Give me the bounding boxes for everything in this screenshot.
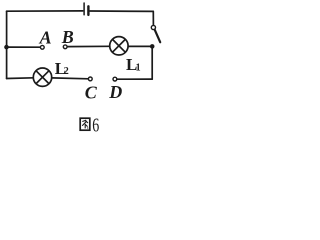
terminal C circle [88,77,92,81]
svg-text:C: C [85,82,98,102]
lamp L2 cross [36,71,49,84]
terminal D circle [113,77,117,81]
wire right drop to switch [152,11,154,25]
lamp L2 circle [33,68,51,86]
wire top-right [90,10,153,12]
wire B to lamp L1 [67,45,110,47]
wire node to terminal A [7,46,41,48]
node left junction dot [4,45,9,50]
battery short plate (negative) [87,6,89,15]
wire top-left [7,10,83,12]
wire lamp L1 to right node [128,45,152,47]
caption glyph tu (figure) [80,118,90,130]
battery long plate (positive) [83,3,85,15]
svg-text:6: 6 [92,115,99,137]
lamp L1 cross [113,39,126,52]
svg-text:A: A [39,28,52,48]
lamp L1 circle [110,37,128,55]
svg-text:D: D [108,82,122,102]
wire D to right corner [117,78,152,80]
svg-text:1: 1 [136,62,141,73]
svg-text:B: B [61,27,74,47]
wire bottom-left [7,77,34,80]
wire left vertical [6,11,8,78]
wire right vertical [151,46,153,79]
terminal B circle [63,45,67,49]
svg-text:2: 2 [64,66,69,77]
terminal A circle [40,45,44,49]
node right junction dot [150,44,155,49]
switch S blade (open) [155,30,161,43]
switch S pivot circle [151,25,155,29]
wire lamp L2 to terminal C [52,77,89,80]
